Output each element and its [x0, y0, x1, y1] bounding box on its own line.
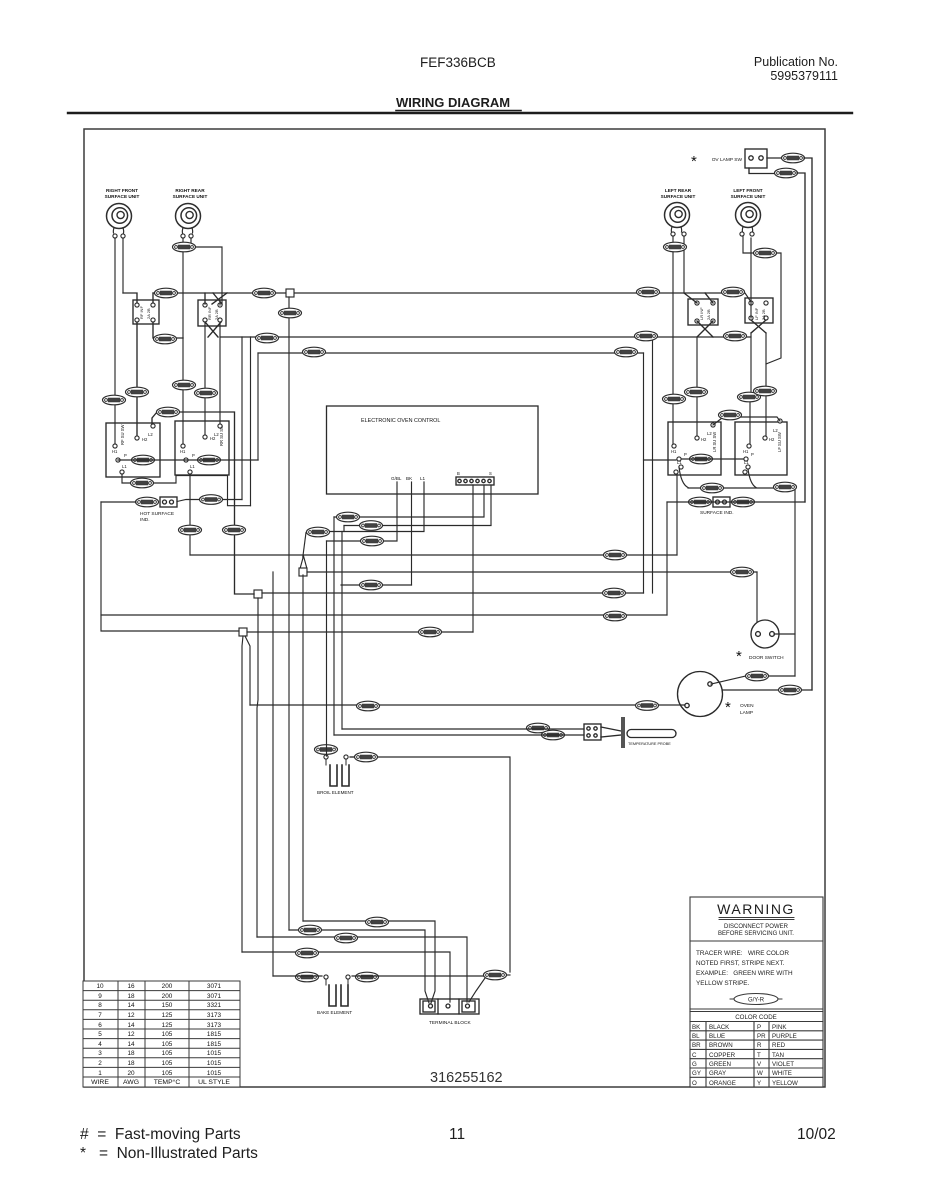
wire: X crossover below LF INF SW [751, 320, 766, 333]
wire: oven lamp to right riser [722, 689, 812, 691]
RT FRT INF SW box [133, 300, 159, 324]
svg-text:105: 105 [162, 1031, 173, 1038]
svg-text:LF INF: LF INF [754, 307, 759, 320]
svg-text:3071: 3071 [207, 993, 222, 1000]
svg-text:10: 10 [96, 983, 104, 990]
svg-text:L1: L1 [744, 460, 749, 465]
svg-text:16: 16 [127, 983, 135, 990]
svg-text:BK: BK [692, 1024, 701, 1031]
svg-text:LEFT FRONT: LEFT FRONT [733, 188, 762, 193]
svg-text:14: 14 [127, 1022, 135, 1029]
RF SU SW pins L2 H2 H1 P L1 [151, 424, 155, 428]
wire: junction3 fan to net952 [242, 636, 243, 952]
svg-text:ELECTRONIC OVEN CONTROL: ELECTRONIC OVEN CONTROL [361, 418, 440, 424]
wire label oval (626,352) [615, 347, 638, 357]
svg-text:BL: BL [692, 1033, 700, 1040]
wire label oval (742,572) [731, 567, 754, 577]
color code column dividers [706, 1022, 769, 1088]
svg-text:BEFORE SERVICING UNIT.: BEFORE SERVICING UNIT. [718, 931, 794, 937]
wire: surface indicator net y=502 [667, 501, 805, 503]
wire label oval (430,632) [419, 627, 442, 637]
color code double divider [690, 1009, 823, 1012]
wire: label to H1 of LF SU SW [749, 399, 751, 444]
RR SU SW box [175, 421, 229, 475]
wire: RR INF SW to H2 of RR SU SW [204, 322, 206, 435]
wire: probe lead y=729 [342, 728, 584, 730]
svg-text:WIRING DIAGRAM: WIRING DIAGRAM [396, 95, 510, 110]
LR SU SW pins L2 H2 H1 P L1 [711, 423, 715, 427]
svg-text:P: P [192, 453, 195, 458]
svg-text:P: P [751, 452, 754, 457]
svg-text:14: 14 [127, 1002, 135, 1009]
svg-text:BAKE ELEMENT: BAKE ELEMENT [317, 1010, 352, 1015]
wire: RR coil right terminal to RR INF SW [191, 238, 222, 305]
svg-text:LR INF: LR INF [699, 307, 704, 320]
wire: X crossover above RR INF SW [205, 293, 227, 304]
wire label oval (647,705.5) [636, 701, 659, 711]
wire: diagonal into terminal block right [469, 978, 485, 1002]
wire label oval (674,399) [663, 394, 686, 404]
svg-text:3071: 3071 [207, 983, 222, 990]
svg-text:P: P [757, 1024, 761, 1031]
wire: main horizontal net y=337 [220, 336, 751, 338]
wire: net y=541 [327, 540, 362, 542]
wire label oval (765,253) [754, 248, 777, 258]
svg-text:G/BL: G/BL [391, 476, 402, 481]
wire: RR INF SW to L2 of RR SU SW [219, 322, 221, 424]
svg-text:200: 200 [162, 983, 173, 990]
wire label oval (733,292) [722, 287, 745, 297]
svg-text:8: 8 [98, 1002, 102, 1009]
wire: hot surface ind drop to junction [101, 502, 239, 631]
svg-text:*: * [691, 153, 697, 170]
wire label oval (307,977) [296, 972, 319, 982]
wire: diagonal into V-junction [303, 533, 306, 558]
wire label oval (184,247) [173, 242, 196, 252]
wire label oval (346,938) [335, 933, 358, 943]
wire: oval to riser x=510 [506, 974, 510, 976]
header rule [68, 112, 852, 114]
svg-text:RR INF: RR INF [207, 306, 212, 320]
svg-text:125: 125 [162, 1022, 173, 1029]
svg-text:9: 9 [98, 993, 102, 1000]
wire: net y=517 [334, 516, 484, 518]
wire label oval (790,690) [779, 685, 802, 695]
wire: RF INF SW lower leads [137, 322, 183, 436]
svg-text:SURFACE UNIT: SURFACE UNIT [105, 194, 140, 199]
svg-text:2: 2 [98, 1060, 102, 1067]
wire: LR coil right terminal to bus [683, 236, 685, 293]
svg-text:12: 12 [127, 1031, 135, 1038]
wire: lamp switch lower lead [749, 168, 775, 174]
wire label oval (114,400) [103, 395, 126, 405]
wire: door switch to oven lamp [768, 675, 795, 677]
svg-text:LEFT REAR: LEFT REAR [665, 188, 692, 193]
wire: net y=952 to terminal block middle [242, 952, 450, 1002]
wire label oval (785,487) [774, 482, 797, 492]
wire: EOC strip pin drop to net517 [483, 485, 485, 516]
svg-text:12: 12 [127, 1012, 135, 1019]
wire: net y=572 [307, 571, 757, 573]
svg-text:SURFACE UNIT: SURFACE UNIT [173, 194, 208, 199]
wire label oval (137,392) [126, 387, 149, 397]
svg-text:L2: L2 [707, 431, 712, 436]
wire: right riser x=812 lamp circuit [804, 158, 812, 690]
svg-text:2A 2B: 2A 2B [214, 309, 219, 320]
svg-text:WARNING: WARNING [717, 901, 795, 917]
svg-text:105: 105 [162, 1041, 173, 1048]
wire label oval (495,975) [484, 970, 507, 980]
svg-text:105: 105 [162, 1070, 173, 1077]
svg-text:PINK: PINK [772, 1024, 787, 1031]
svg-text:7: 7 [98, 1012, 102, 1019]
wire: L1 tie RF SU SW to riser x=250 [122, 474, 251, 506]
wire label oval (211,499.5) [200, 495, 223, 505]
svg-text:*: * [736, 648, 742, 665]
svg-text:H1: H1 [112, 449, 118, 454]
wire label oval (614,593) [603, 588, 626, 598]
wire: EOC strip pin drop to net525 [490, 485, 492, 525]
wire: probe lead y=735 [334, 734, 584, 736]
svg-text:LR SU SW: LR SU SW [712, 432, 717, 452]
wire label oval (190,530) [179, 525, 202, 535]
svg-text:COLOR CODE: COLOR CODE [735, 1014, 777, 1021]
svg-text:18: 18 [127, 1060, 135, 1067]
broil element loop 1 [330, 765, 337, 786]
wire label oval (209,460) [198, 455, 221, 465]
connector strip [456, 477, 494, 485]
wire: P net y=460 right pair [682, 458, 746, 460]
LR SU SW box [668, 422, 721, 475]
wire label oval (793,158) [782, 153, 805, 163]
wire: LF coil left terminal to label [743, 236, 754, 253]
left front surface unit [731, 188, 766, 236]
wire label oval (765,391) [754, 386, 777, 396]
svg-text:RIGHT FRONT: RIGHT FRONT [106, 188, 138, 193]
svg-text:AWG: AWG [123, 1079, 139, 1086]
wire: probe riser x=342 [341, 532, 343, 730]
svg-text:WHITE: WHITE [772, 1070, 792, 1077]
wire label oval (234,530) [223, 525, 246, 535]
wire label oval (168,412) [157, 407, 180, 417]
svg-text:1815: 1815 [207, 1041, 222, 1048]
wire label oval (646,336) [635, 331, 658, 341]
svg-text:GY: GY [692, 1070, 701, 1077]
wire: net y=921 to terminal block left [303, 921, 435, 1003]
wire: net y=937 to terminal block right [257, 937, 467, 1002]
svg-text:RF INF: RF INF [139, 306, 144, 319]
wire label oval (184,385) [173, 380, 196, 390]
svg-text:GRAY: GRAY [709, 1070, 726, 1077]
wire label oval (675,247) [664, 242, 687, 252]
wire: L1 bus across top [153, 293, 751, 302]
wire: right riser x=805 [797, 173, 805, 502]
svg-text:P: P [684, 452, 687, 457]
wire label oval (712,488) [701, 483, 724, 493]
svg-text:*: * [725, 699, 731, 716]
bake element loop 2 [341, 985, 348, 1006]
svg-text:2A 2B: 2A 2B [146, 308, 151, 319]
svg-text:L1: L1 [677, 460, 682, 465]
LF SU SW pins L2 H2 H1 P L1 [778, 419, 782, 423]
svg-text:* = Non-Illustrated Parts: * = Non-Illustrated Parts [80, 1145, 258, 1162]
wire: L1 net y=488 to door switch riser [688, 488, 795, 676]
wire: net y=930 to terminal block left [289, 930, 429, 1003]
wire label oval (267,338) [256, 333, 279, 343]
svg-text:L2: L2 [773, 428, 778, 433]
wire label oval (264,293) [253, 288, 276, 298]
wire: hot surface ind right lead upper [177, 500, 242, 502]
wire label oval (648,292) [637, 287, 660, 297]
svg-text:1015: 1015 [207, 1060, 222, 1067]
svg-text:5: 5 [98, 1031, 102, 1038]
wire label oval (615,616) [604, 611, 627, 621]
wire: RF coil right terminal down to L1 bus [122, 238, 124, 293]
wire: bake element left lead [273, 975, 322, 977]
probe taper links [601, 727, 621, 737]
svg-text:YELLOW: YELLOW [772, 1080, 798, 1087]
svg-text:H2: H2 [769, 437, 775, 442]
svg-text:L2: L2 [148, 432, 153, 437]
wire: BK net y=585 [341, 584, 412, 586]
svg-text:BROIL ELEMENT: BROIL ELEMENT [317, 790, 354, 795]
svg-text:TEMPERATURE PROBE: TEMPERATURE PROBE [628, 742, 671, 746]
wire: LF coil right terminal through LF INF SW [750, 238, 752, 318]
wire: diagonal into oven lamp terminal [711, 676, 746, 684]
wire label oval (290,313) [279, 308, 302, 318]
wire label oval (749,397) [738, 392, 761, 402]
wire gauge table row dividers [83, 991, 240, 1077]
svg-text:G: G [692, 1061, 697, 1068]
wire: door switch right terminal lead [774, 633, 795, 635]
svg-text:H2: H2 [701, 437, 707, 442]
wire: bus entry via RF INF SW [123, 293, 153, 303]
broil element loop 2 [342, 765, 349, 786]
wire: jog net525 to net531 [343, 526, 345, 532]
left rear surface unit [661, 188, 696, 236]
wire label oval (372,541) [361, 536, 384, 546]
wire label oval (307,953) [296, 948, 319, 958]
svg-text:HOT SURFACE: HOT SURFACE [140, 511, 174, 517]
wire label oval (371,585) [360, 580, 383, 590]
svg-text:H1: H1 [180, 449, 186, 454]
wire: riser x=652 net337 to net593 [652, 337, 654, 593]
bake element terminal stubs [326, 980, 348, 985]
svg-text:SURFACE IND.: SURFACE IND. [700, 510, 734, 516]
wire: net y=632 [247, 631, 473, 633]
wire label oval (757,676) [746, 671, 769, 681]
svg-text:PR: PR [757, 1033, 766, 1040]
wire: EOC strip pin drop to net632 [472, 485, 474, 632]
wire: L2 feeder V between LR/LF SU SW [713, 417, 780, 425]
wire: junction2 drop to net937 [257, 598, 258, 937]
svg-text:H2: H2 [210, 436, 216, 441]
wire label oval (735,336) [724, 331, 747, 341]
LF SU SW box [735, 422, 787, 475]
svg-text:YELLOW STRIPE.: YELLOW STRIPE. [696, 980, 749, 987]
wire label oval (696,392) [685, 387, 708, 397]
svg-text:18: 18 [127, 1050, 135, 1057]
svg-text:150: 150 [162, 1002, 173, 1009]
wire: RR coil left terminal to H1 of RR SU SW [182, 238, 184, 444]
svg-text:1815: 1815 [207, 1031, 222, 1038]
wire: bake element right lead [352, 975, 484, 977]
wire: bake element riser x=273 [272, 572, 274, 976]
wire label oval (166,293) [155, 288, 178, 298]
wire label oval (367,977) [356, 972, 379, 982]
svg-text:DOOR SWITCH: DOOR SWITCH [749, 655, 784, 661]
color code row dividers [690, 1031, 823, 1078]
terminal block dividers [438, 999, 459, 1014]
svg-text:1: 1 [98, 1070, 102, 1077]
wire label oval (730,415) [719, 410, 742, 420]
svg-text:2A 2B: 2A 2B [706, 309, 711, 320]
svg-text:H2: H2 [142, 437, 148, 442]
wire label oval (377,922) [366, 917, 389, 927]
wire: probe riser x=334 [333, 517, 335, 735]
broil element terminal stubs [326, 760, 346, 765]
svg-text:2A 2B: 2A 2B [761, 309, 766, 320]
wire label oval (786,173) [775, 168, 798, 178]
svg-text:10/02: 10/02 [797, 1126, 836, 1143]
svg-text:C: C [692, 1052, 697, 1059]
svg-text:H1: H1 [743, 449, 749, 454]
wire: riser x=667 [666, 502, 668, 615]
wire: riser x=250 [250, 337, 252, 506]
svg-text:BLUE: BLUE [709, 1033, 725, 1040]
wire: broil element right lead to block [350, 757, 510, 972]
wire label oval (143,460) [132, 455, 155, 465]
color code header divider [690, 1021, 823, 1023]
wire: EOC BK pin drop [411, 482, 413, 585]
svg-text:IND.: IND. [140, 517, 150, 523]
svg-text:FEF336BCB: FEF336BCB [420, 55, 496, 70]
svg-text:105: 105 [162, 1050, 173, 1057]
svg-text:3: 3 [98, 1050, 102, 1057]
svg-text:Y: Y [757, 1080, 761, 1087]
wire label oval (615,555) [604, 550, 627, 560]
svg-text:LAMP: LAMP [740, 710, 753, 716]
wire: net y=555 [190, 554, 677, 556]
svg-text:PURPLE: PURPLE [772, 1033, 797, 1040]
svg-text:S: S [489, 471, 492, 476]
wire gauge table column dividers [118, 981, 189, 1087]
wire: lamp switch to label [767, 157, 782, 159]
wire label oval (147,502) [136, 497, 159, 507]
wire: net y=593 [262, 592, 644, 594]
svg-text:TAN: TAN [772, 1052, 784, 1059]
svg-text:3321: 3321 [207, 1002, 222, 1009]
wire label oval (368,706) [357, 701, 380, 711]
svg-text:SURFACE UNIT: SURFACE UNIT [661, 194, 696, 199]
wire: LF INF SW down to label [750, 333, 752, 394]
wire: riser x=303 to net921 [302, 575, 304, 921]
RF SU SW box [106, 423, 160, 477]
warning box divider 1 [690, 940, 823, 942]
WARNING underline [719, 918, 794, 920]
wire: EOC G/BL pin drop [383, 482, 397, 541]
svg-text:3173: 3173 [207, 1022, 222, 1029]
wire: V above LR INF SW [684, 293, 713, 303]
wire: P net y=460 left pair [118, 459, 258, 461]
svg-text:H1: H1 [671, 449, 677, 454]
svg-text:VIOLET: VIOLET [772, 1061, 794, 1068]
wire: broil element riser x=326 [326, 541, 328, 756]
svg-text:OVEN: OVEN [740, 703, 754, 709]
svg-text:TEMP°C: TEMP°C [154, 1078, 181, 1086]
wire: RF coil left terminal to H1 of RF SU SW [114, 238, 116, 444]
svg-text:BK: BK [406, 476, 413, 481]
svg-text:# = Fast-moving Parts: # = Fast-moving Parts [80, 1126, 241, 1143]
wire label oval (318,532) [307, 527, 330, 537]
wire: riser x=643 [643, 460, 645, 593]
svg-text:1015: 1015 [207, 1070, 222, 1077]
svg-text:11: 11 [449, 1126, 465, 1143]
wire: L2 RF SU SW to riser x=234 and junction2 [152, 412, 254, 594]
wire label oval (142,483) [131, 478, 154, 488]
svg-text:4: 4 [98, 1041, 102, 1048]
svg-text:SURFACE UNIT: SURFACE UNIT [731, 194, 766, 199]
wire label oval (371,525.5) [360, 521, 383, 531]
svg-text:200: 200 [162, 993, 173, 1000]
svg-text:BR: BR [692, 1042, 701, 1049]
y=632 line + square3 [239, 628, 247, 636]
svg-text:18: 18 [127, 993, 135, 1000]
wire: oven lamp left feed y=706 [250, 704, 685, 706]
wire: LF coil step wire to H2 of LF SU SW [766, 253, 781, 436]
wire: net y=525 [344, 525, 491, 527]
svg-text:B: B [457, 471, 460, 476]
svg-text:OV LAMP SW: OV LAMP SW [712, 157, 743, 163]
wire: X crossover below RR INF SW [205, 322, 221, 337]
wire: broil stub [350, 756, 355, 758]
wire: LR INF SW to H2 of LR SU SW [696, 337, 698, 436]
svg-text:T: T [757, 1052, 761, 1059]
svg-text:RED: RED [772, 1042, 786, 1049]
bake element loop 1 [329, 985, 336, 1006]
svg-text:14: 14 [127, 1041, 135, 1048]
svg-text:P: P [124, 453, 127, 458]
wire: hot surface ind left lead [101, 501, 136, 503]
svg-text:TRACER WIRE: WIRE COLOR: TRACER WIRE: WIRE COLOR [696, 950, 789, 957]
svg-text:R: R [757, 1042, 762, 1049]
svg-text:L1: L1 [190, 464, 195, 469]
wire label oval (553,735) [542, 730, 565, 740]
svg-text:LF SU SW: LF SU SW [777, 432, 782, 452]
LR INF SW box [688, 299, 718, 325]
RR SU SW pins L2 H2 H1 P L1 [218, 424, 222, 428]
wire: L1 of RR SU SW drop [189, 474, 191, 555]
svg-text:BLACK: BLACK [709, 1024, 730, 1031]
wire: V funnel into junction square [301, 556, 307, 567]
wire: riser x=242 [241, 337, 243, 500]
svg-text:TERMINAL BLOCK: TERMINAL BLOCK [429, 1020, 471, 1026]
wire label oval (326,749.5) [315, 745, 338, 755]
wire: net y=615 [101, 614, 667, 616]
svg-text:W: W [757, 1070, 763, 1077]
right rear surface unit [173, 188, 208, 238]
svg-text:6: 6 [98, 1022, 102, 1029]
svg-text:COPPER: COPPER [709, 1052, 736, 1059]
wire: L1 hooks of LR/LF SU SW [679, 467, 756, 488]
svg-text:5995379111: 5995379111 [770, 69, 838, 83]
wire: X crossover below LR INF SW [697, 321, 713, 337]
svg-text:L1: L1 [420, 476, 426, 481]
RR INF SW box [198, 300, 226, 326]
svg-text:O: O [692, 1080, 697, 1087]
wire label oval (366,757) [355, 752, 378, 762]
svg-text:ORANGE: ORANGE [709, 1080, 736, 1087]
